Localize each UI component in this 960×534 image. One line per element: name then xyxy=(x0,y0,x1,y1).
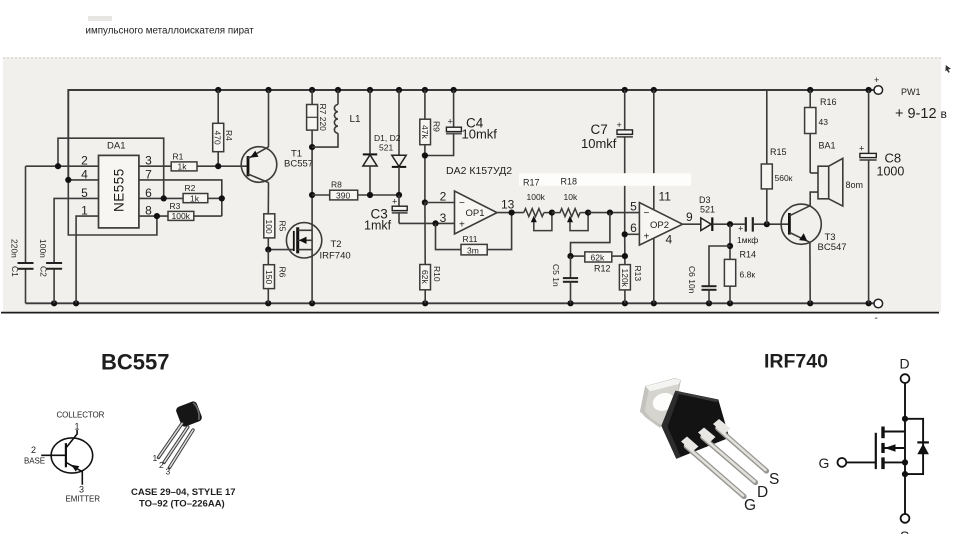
svg-text:+: + xyxy=(392,197,397,207)
svg-text:47k: 47k xyxy=(420,125,430,139)
wire T1 collector to R5 xyxy=(267,183,269,214)
node OP1 pin3 junction xyxy=(432,220,438,226)
wire drain vertical xyxy=(904,383,906,514)
svg-text:D1, D2: D1, D2 xyxy=(374,133,401,143)
svg-text:560к: 560к xyxy=(775,173,793,183)
svg-text:G: G xyxy=(819,455,830,471)
svg-text:R9: R9 xyxy=(432,121,442,132)
transistor T1 BC557 xyxy=(241,147,313,183)
svg-text:1000: 1000 xyxy=(877,165,905,179)
wire D3 node down to R14 xyxy=(729,224,731,259)
svg-text:S: S xyxy=(769,471,779,488)
resistor R8 390 xyxy=(330,180,358,201)
svg-text:+ 9-12 в: + 9-12 в xyxy=(895,106,947,122)
node D2 C3 junction xyxy=(396,192,402,198)
resistor R9 47k xyxy=(420,119,442,145)
svg-text:R3: R3 xyxy=(170,201,181,211)
wire top V+ bus xyxy=(68,90,869,180)
node source segment junction xyxy=(902,459,908,465)
body diode symbol xyxy=(917,444,929,455)
wire C3 bottom to OP1 pin3 xyxy=(399,222,455,224)
MOSFET channel segments xyxy=(881,427,884,470)
svg-text:+: + xyxy=(459,220,465,231)
555 pin number labels right xyxy=(145,154,152,218)
svg-text:+: + xyxy=(859,144,864,154)
svg-text:TO–92 (TO–226AA): TO–92 (TO–226AA) xyxy=(139,499,225,510)
svg-text:150: 150 xyxy=(264,270,274,284)
mouse cursor mark xyxy=(945,65,951,73)
wire R9 top xyxy=(424,90,426,119)
node junction dots on bottom bus xyxy=(51,300,872,306)
wire gate node to R6 xyxy=(267,250,269,265)
node C4 R9 junction xyxy=(422,152,428,158)
node R7 L1 drain junction xyxy=(309,144,315,150)
svg-text:R1: R1 xyxy=(173,152,184,162)
capacitor C3 1mkf xyxy=(364,195,408,233)
wire drain to channel xyxy=(883,431,905,433)
divider scan edge line xyxy=(1,312,939,314)
resistor R1 1k xyxy=(171,152,197,172)
svg-text:7: 7 xyxy=(145,167,152,181)
wire R9 bottom to pin2 node xyxy=(424,145,426,203)
TO-220 package tab xyxy=(640,379,692,436)
wire R6 to ground xyxy=(267,289,269,304)
TO-220 legs xyxy=(681,419,767,497)
svg-text:G: G xyxy=(744,497,756,514)
svg-text:13: 13 xyxy=(501,198,515,212)
svg-text:6: 6 xyxy=(145,186,152,200)
svg-text:C1: C1 xyxy=(10,266,20,277)
op-amp OP2 xyxy=(630,190,693,247)
svg-text:8: 8 xyxy=(145,204,152,218)
svg-text:1k: 1k xyxy=(178,162,188,172)
svg-text:390: 390 xyxy=(336,190,350,200)
svg-text:R16: R16 xyxy=(820,97,837,107)
node R12 right junction xyxy=(622,253,628,259)
wire OP2 output to D3 xyxy=(683,223,701,225)
svg-text:62k: 62k xyxy=(591,252,605,262)
svg-text:PW1: PW1 xyxy=(901,87,921,97)
svg-text:6.8к: 6.8к xyxy=(740,270,756,280)
body diode branch xyxy=(905,419,923,474)
wire pin3 to R1 to T1 base xyxy=(139,165,171,167)
svg-text:1мкф: 1мкф xyxy=(737,235,758,245)
resistor R2 1k xyxy=(183,183,208,203)
svg-text:62k: 62k xyxy=(420,270,430,284)
node R15 base junction xyxy=(764,221,770,227)
capacitor C9 1mkf coupling xyxy=(737,217,758,245)
wire D3 to C9 xyxy=(712,223,744,225)
svg-text:2: 2 xyxy=(440,190,447,204)
svg-text:CASE 29–04, STYLE 17: CASE 29–04, STYLE 17 xyxy=(131,487,236,498)
speaker BA1 xyxy=(810,158,843,206)
TO-92 package body xyxy=(175,400,203,427)
diode D2 xyxy=(392,90,406,195)
svg-text:IRF740: IRF740 xyxy=(320,251,351,262)
node OP1 pin2 junction xyxy=(422,199,428,205)
wire pin6 node down to R12 right and R13 xyxy=(624,234,626,264)
wire bottom ground bus xyxy=(26,302,869,304)
wire pin7 row xyxy=(139,180,222,216)
wire gate lead xyxy=(846,461,876,463)
terminal PW1 + xyxy=(874,75,883,94)
wire OP2 pin6 xyxy=(625,233,640,235)
node OP1 output junction xyxy=(509,210,515,216)
svg-text:BC547: BC547 xyxy=(818,242,847,253)
wire R10 to ground xyxy=(424,203,426,265)
svg-text:470: 470 xyxy=(213,131,223,145)
svg-text:C7: C7 xyxy=(591,122,608,137)
svg-text:100k: 100k xyxy=(527,192,546,202)
svg-text:C6 10n: C6 10n xyxy=(687,266,697,294)
resistor R15 560k xyxy=(761,90,792,224)
svg-text:DA1: DA1 xyxy=(107,141,125,152)
resistor R6 150 xyxy=(264,265,288,289)
TO-220 package body xyxy=(661,391,729,459)
scan gray background xyxy=(3,57,941,312)
svg-text:R13: R13 xyxy=(633,266,643,282)
svg-text:R17: R17 xyxy=(523,178,540,188)
svg-text:OP2: OP2 xyxy=(650,220,669,231)
svg-text:BC557: BC557 xyxy=(101,350,169,375)
wire R4 top xyxy=(217,90,219,123)
svg-text:D: D xyxy=(900,356,910,372)
svg-text:D3: D3 xyxy=(699,195,711,205)
svg-text:120k: 120k xyxy=(620,269,630,288)
wire pin4 row xyxy=(68,179,98,181)
svg-text:BA1: BA1 xyxy=(819,141,836,151)
svg-text:10k: 10k xyxy=(564,192,578,202)
svg-text:43: 43 xyxy=(819,117,829,127)
IC DA1 NE555 xyxy=(99,141,139,228)
wire R18 to OP2 pin5 xyxy=(588,212,639,214)
wire R4 bottom xyxy=(217,152,219,167)
node gate junction dot xyxy=(265,247,271,253)
svg-text:1: 1 xyxy=(75,422,80,432)
wire C9 to T3 base xyxy=(753,223,790,225)
diode D3 xyxy=(699,195,715,231)
node R12 left junction xyxy=(567,253,573,259)
wire pin1 row to ground xyxy=(76,216,98,303)
node junction dots on top bus xyxy=(215,87,872,93)
svg-text:OP1: OP1 xyxy=(466,208,485,219)
wire OP1 output xyxy=(497,212,524,214)
svg-text:C5 1n: C5 1n xyxy=(551,264,561,287)
resistor R7 220 xyxy=(307,104,328,132)
capacitor C7 10mkf xyxy=(581,90,633,234)
svg-text:3: 3 xyxy=(166,467,171,477)
svg-text:-: - xyxy=(875,313,878,324)
terminal D circle xyxy=(901,374,910,383)
svg-text:4: 4 xyxy=(666,233,673,247)
svg-text:R4: R4 xyxy=(224,130,234,141)
capacitor C1 220n xyxy=(18,263,34,269)
svg-text:100: 100 xyxy=(264,220,274,234)
svg-text:R14: R14 xyxy=(740,250,757,260)
resistor R5 100 xyxy=(264,214,288,238)
svg-text:220n: 220n xyxy=(10,239,20,258)
svg-text:11: 11 xyxy=(659,190,672,204)
white correction patch xyxy=(519,173,691,186)
555 pin number labels left xyxy=(81,154,88,218)
node pin6 junction xyxy=(622,231,628,237)
svg-text:R12: R12 xyxy=(594,264,611,274)
terminal G circle xyxy=(838,458,847,467)
svg-text:S: S xyxy=(900,528,909,534)
svg-text:6: 6 xyxy=(630,221,637,235)
svg-text:5: 5 xyxy=(81,186,88,200)
svg-text:R18: R18 xyxy=(561,177,578,187)
svg-text:4: 4 xyxy=(81,167,88,181)
svg-text:R8: R8 xyxy=(331,180,342,190)
svg-text:−: − xyxy=(644,208,650,219)
wire pin8 to R3 xyxy=(139,215,168,217)
svg-text:R6: R6 xyxy=(278,267,288,278)
diode D1 xyxy=(363,90,377,195)
transistor T2 IRF740 xyxy=(286,223,350,262)
svg-text:9: 9 xyxy=(686,210,693,224)
svg-text:2: 2 xyxy=(31,445,36,455)
svg-text:2: 2 xyxy=(81,154,88,168)
svg-text:EMITTER: EMITTER xyxy=(66,495,101,504)
svg-text:−: − xyxy=(459,198,465,209)
svg-text:C2: C2 xyxy=(39,266,49,277)
MOSFET gate bar xyxy=(875,433,877,469)
resistor R12 62k xyxy=(571,252,625,274)
wire R2 right xyxy=(208,197,222,199)
capacitor C2 100n xyxy=(46,263,62,269)
capacitor C1 lead xyxy=(25,166,27,263)
svg-text:521: 521 xyxy=(700,205,715,215)
wire R3 right xyxy=(194,215,222,217)
svg-text:BASE: BASE xyxy=(24,457,45,466)
wire T1 emitter to top bus xyxy=(268,90,270,147)
capacitor C8 1000 xyxy=(859,90,904,303)
svg-text:C8: C8 xyxy=(885,151,902,166)
svg-text:+: + xyxy=(874,75,879,85)
node R14 C6 junction xyxy=(727,243,733,249)
svg-text:3: 3 xyxy=(145,154,152,168)
svg-text:IRF740: IRF740 xyxy=(764,351,828,373)
svg-text:R2: R2 xyxy=(185,183,196,193)
wire pin5 node down to R12 xyxy=(571,213,610,257)
wire source to channel xyxy=(883,461,905,463)
terminal S circle xyxy=(901,514,910,523)
svg-text:10mkf: 10mkf xyxy=(581,136,617,151)
inductor L1 coil xyxy=(312,90,338,147)
wire R8 left xyxy=(312,194,330,196)
TO-92 legs xyxy=(159,424,194,468)
capacitor C2 lead xyxy=(53,269,55,304)
wire R7 bottom to L1 node xyxy=(311,130,313,147)
wire bottom bus to PW1 minus terminal xyxy=(869,302,874,304)
svg-text:+: + xyxy=(617,120,622,130)
svg-text:3: 3 xyxy=(440,211,447,225)
svg-text:1: 1 xyxy=(153,453,158,463)
junction dots 555 area xyxy=(55,163,225,219)
potentiometer R17 100k xyxy=(524,209,552,231)
svg-text:BC557: BC557 xyxy=(284,159,313,170)
resistor R11 3m feedback xyxy=(436,213,512,256)
svg-text:2: 2 xyxy=(159,460,164,470)
svg-text:+: + xyxy=(644,232,650,243)
resistor R10 62k xyxy=(420,265,442,290)
svg-text:R15: R15 xyxy=(770,147,787,157)
wire T2 drain/source vertical xyxy=(311,147,313,303)
node drain diode junction xyxy=(902,416,908,422)
svg-text:R11: R11 xyxy=(463,234,478,244)
svg-text:R10: R10 xyxy=(432,266,442,282)
svg-text:+: + xyxy=(738,224,743,234)
resistor R14 6.8k xyxy=(724,250,756,304)
wire pin5 row xyxy=(54,198,98,263)
svg-text:L1: L1 xyxy=(350,114,362,125)
svg-text:импульсного металлоискателя пи: импульсного металлоискателя пират xyxy=(86,26,255,37)
resistor R3 100k xyxy=(168,201,194,221)
wire R8 right to D1 D2 C3 xyxy=(358,194,399,196)
svg-text:COLLECTOR: COLLECTOR xyxy=(57,411,105,420)
wire pin6 to R2 xyxy=(139,197,183,199)
transistor T3 BC547 xyxy=(781,204,846,253)
svg-text:NE555: NE555 xyxy=(112,168,127,212)
wire T3 emitter to ground xyxy=(809,242,811,303)
svg-text:R5: R5 xyxy=(278,221,288,232)
node D3 R14 junction xyxy=(727,221,733,227)
svg-text:D: D xyxy=(757,484,768,501)
op-amp OP1 xyxy=(440,190,515,235)
wire R5 to gate node xyxy=(267,238,269,250)
svg-text:T2: T2 xyxy=(331,239,342,250)
capacitor C4 10mkf xyxy=(425,90,497,156)
svg-text:1k: 1k xyxy=(190,193,200,203)
wire top bus to PW1 plus terminal xyxy=(869,89,874,91)
potentiometer R18 10k xyxy=(552,209,588,231)
node diode bottom junction xyxy=(902,471,908,477)
svg-text:1: 1 xyxy=(81,204,88,218)
svg-text:10mkf: 10mkf xyxy=(462,127,498,142)
svg-text:521: 521 xyxy=(379,143,393,153)
capacitor C5 1n xyxy=(551,256,578,303)
wire R7 top xyxy=(311,90,313,105)
node R18 OP2 junction xyxy=(585,210,591,216)
node D1 junction xyxy=(367,192,373,198)
wire pin2 node to OP1 xyxy=(425,202,455,204)
wire pin2-pin6 tie loop xyxy=(58,138,164,198)
svg-text:100n: 100n xyxy=(38,239,48,258)
wire pin2 row xyxy=(26,165,99,167)
svg-text:3m: 3m xyxy=(467,245,479,255)
svg-text:DA2 К157УД2: DA2 К157УД2 xyxy=(446,165,512,177)
wire pin4 V+ to pin8 route xyxy=(68,180,157,235)
node R17 R18 junction xyxy=(549,210,555,216)
svg-text:8om: 8om xyxy=(846,180,864,190)
node R8 drain junction xyxy=(309,192,315,198)
svg-text:5: 5 xyxy=(630,200,637,214)
resistor R16 43 xyxy=(805,90,837,173)
wire OP2 supply pin11 pin4 vertical xyxy=(653,90,655,303)
wire gate node to T2 gate xyxy=(268,249,294,251)
terminal PW1 - xyxy=(874,299,883,324)
svg-text:100k: 100k xyxy=(172,211,191,221)
svg-text:3: 3 xyxy=(79,485,84,495)
svg-text:+: + xyxy=(448,117,453,127)
svg-text:R7 220: R7 220 xyxy=(318,104,328,132)
transistor symbol BC557 PNP xyxy=(41,430,92,485)
resistor R4 470 xyxy=(213,123,235,151)
svg-text:1mkf: 1mkf xyxy=(364,219,392,233)
resistor R13 120k xyxy=(619,265,643,304)
wire substrate arrow to channel xyxy=(884,447,905,449)
capacitor C6 10n xyxy=(687,246,730,303)
node pin5 R12 junction xyxy=(607,210,613,216)
